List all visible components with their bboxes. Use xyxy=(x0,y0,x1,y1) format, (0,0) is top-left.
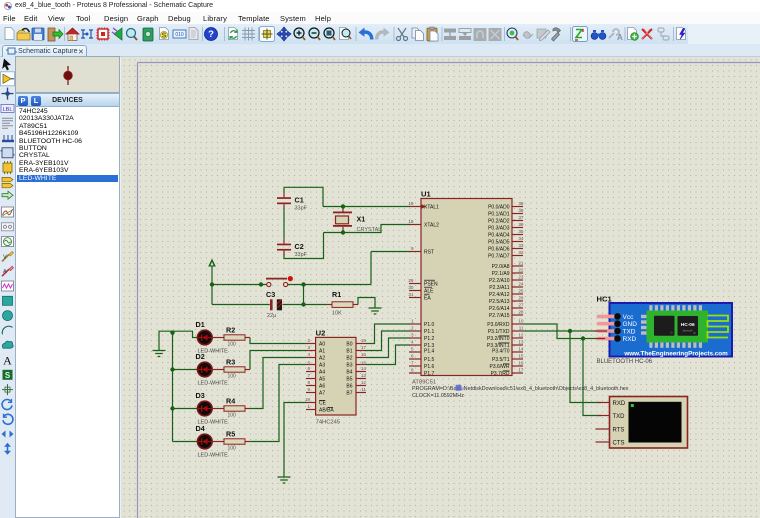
svg-text:P2.6/A14: P2.6/A14 xyxy=(489,306,510,312)
svg-text:13: 13 xyxy=(361,373,367,378)
svg-text:10K: 10K xyxy=(332,311,342,317)
svg-text:R5: R5 xyxy=(226,430,235,439)
svg-text:ALE: ALE xyxy=(424,288,434,294)
svg-text:www.TheEngineeringProjects.com: www.TheEngineeringProjects.com xyxy=(623,351,728,358)
svg-text:P1.4: P1.4 xyxy=(424,349,435,355)
svg-text:P3.7/RD: P3.7/RD xyxy=(491,371,510,377)
svg-text:33pF: 33pF xyxy=(295,252,308,258)
svg-text:A5: A5 xyxy=(319,376,325,382)
svg-text:P1.1: P1.1 xyxy=(424,329,435,335)
svg-text:9: 9 xyxy=(411,246,414,251)
svg-text:18: 18 xyxy=(361,338,367,343)
svg-text:CRYSTAL: CRYSTAL xyxy=(357,227,382,233)
svg-text:D3: D3 xyxy=(196,391,205,400)
svg-text:A: A xyxy=(3,269,7,275)
svg-text:R4: R4 xyxy=(226,397,235,406)
svg-text:33pF: 33pF xyxy=(295,206,308,212)
svg-text:28: 28 xyxy=(518,310,524,315)
svg-text:?: ? xyxy=(208,29,214,40)
svg-text:11: 11 xyxy=(361,387,366,392)
svg-text:P1.7: P1.7 xyxy=(424,371,435,377)
svg-text:14: 14 xyxy=(361,366,367,371)
svg-text:3: 3 xyxy=(307,345,310,350)
svg-text:C1: C1 xyxy=(295,196,304,205)
svg-text:21: 21 xyxy=(518,261,524,266)
svg-text:B0: B0 xyxy=(346,341,352,347)
svg-text:D1: D1 xyxy=(196,320,205,329)
svg-text:7: 7 xyxy=(307,373,310,378)
svg-text:P1.6: P1.6 xyxy=(424,364,435,370)
svg-text:4: 4 xyxy=(411,340,414,345)
svg-text:B3: B3 xyxy=(346,362,352,368)
svg-text:D2: D2 xyxy=(196,352,205,361)
svg-text:S: S xyxy=(162,32,167,39)
svg-text:P0.5/AD5: P0.5/AD5 xyxy=(488,239,510,245)
svg-text:P3.4/T0: P3.4/T0 xyxy=(492,349,510,355)
svg-text:P2.7/A15: P2.7/A15 xyxy=(489,313,510,319)
svg-text:A: A xyxy=(3,354,12,368)
svg-text:23: 23 xyxy=(518,275,524,280)
svg-text:36: 36 xyxy=(518,222,524,227)
svg-text:P2.3/A11: P2.3/A11 xyxy=(489,285,509,291)
svg-text:P0.1/AD1: P0.1/AD1 xyxy=(488,211,510,217)
svg-text:P3.2/INT0: P3.2/INT0 xyxy=(487,336,510,342)
svg-text:4: 4 xyxy=(307,352,310,357)
svg-text:TXD: TXD xyxy=(613,414,626,420)
svg-text:A2: A2 xyxy=(319,355,325,361)
svg-text:9: 9 xyxy=(307,387,310,392)
svg-text:A4: A4 xyxy=(319,369,325,375)
svg-text:S: S xyxy=(5,371,11,380)
svg-text:P3.6/WR: P3.6/WR xyxy=(489,364,509,370)
svg-text:LED-WHITE: LED-WHITE xyxy=(198,453,229,459)
svg-text:5: 5 xyxy=(411,347,414,352)
svg-text:D4: D4 xyxy=(196,424,205,433)
svg-text:P0.0/AD0: P0.0/AD0 xyxy=(488,204,510,210)
svg-text:Vcc: Vcc xyxy=(623,314,635,321)
svg-text:XTAL1: XTAL1 xyxy=(424,204,439,210)
svg-text:26: 26 xyxy=(518,296,524,301)
svg-text:6: 6 xyxy=(411,354,414,359)
svg-text:P2.1/A9: P2.1/A9 xyxy=(492,271,510,277)
svg-text:X1: X1 xyxy=(357,215,366,224)
svg-text:30: 30 xyxy=(408,285,414,290)
svg-text:R1: R1 xyxy=(332,290,341,299)
svg-text:33: 33 xyxy=(518,243,524,248)
svg-text:100: 100 xyxy=(228,342,237,348)
svg-text:27: 27 xyxy=(518,303,524,308)
svg-text:29: 29 xyxy=(408,278,414,283)
svg-text:P3.0/RXD: P3.0/RXD xyxy=(487,322,510,328)
svg-text:U1: U1 xyxy=(421,190,431,199)
svg-text:PROGRAM=D:\BaiduNetdiskDownloa: PROGRAM=D:\BaiduNetdiskDownload\c51\ex8_… xyxy=(412,386,629,392)
svg-text:RST: RST xyxy=(424,249,434,255)
svg-text:8: 8 xyxy=(307,380,310,385)
svg-text:22µ: 22µ xyxy=(267,313,277,319)
svg-text:P0.3/AD3: P0.3/AD3 xyxy=(488,225,510,231)
svg-text:P1.5: P1.5 xyxy=(424,357,435,363)
svg-text:100: 100 xyxy=(228,446,237,452)
svg-text:19: 19 xyxy=(305,397,311,402)
svg-text:19: 19 xyxy=(408,201,414,206)
svg-text:5: 5 xyxy=(307,361,310,366)
svg-text:C3: C3 xyxy=(266,290,275,299)
svg-text:RXD: RXD xyxy=(613,401,626,407)
svg-text:17: 17 xyxy=(361,345,367,350)
svg-text:RTS: RTS xyxy=(613,428,625,434)
svg-text:74HC245: 74HC245 xyxy=(316,420,341,426)
svg-text:GND: GND xyxy=(623,321,638,328)
svg-text:P3.5/T1: P3.5/T1 xyxy=(492,357,510,363)
svg-text:100: 100 xyxy=(228,413,237,419)
svg-text:C2: C2 xyxy=(295,242,304,251)
svg-text:38: 38 xyxy=(518,208,524,213)
svg-text:A6: A6 xyxy=(319,383,325,389)
svg-text:AB/BA: AB/BA xyxy=(319,407,334,413)
svg-text:XTAL2: XTAL2 xyxy=(424,222,439,228)
svg-text:HC-06: HC-06 xyxy=(681,322,695,328)
svg-text:P2.4/A12: P2.4/A12 xyxy=(489,292,510,298)
svg-text:3: 3 xyxy=(411,333,414,338)
svg-text:34: 34 xyxy=(518,236,524,241)
svg-text:16: 16 xyxy=(518,361,524,366)
svg-text:CLOCK=11.0592MHz: CLOCK=11.0592MHz xyxy=(412,393,464,399)
svg-text:B4: B4 xyxy=(346,369,352,375)
svg-text:PSEN: PSEN xyxy=(424,281,438,287)
svg-text:P2.2/A10: P2.2/A10 xyxy=(489,278,510,284)
svg-text:P2.0/A8: P2.0/A8 xyxy=(492,264,510,270)
svg-text:P0.2/AD2: P0.2/AD2 xyxy=(488,218,510,224)
svg-text:EA: EA xyxy=(424,295,431,301)
svg-text:P1.2: P1.2 xyxy=(424,336,435,342)
svg-text:A7: A7 xyxy=(319,390,325,396)
svg-text:1: 1 xyxy=(411,319,414,324)
svg-text:31: 31 xyxy=(408,292,414,297)
svg-text:BLUETOOTH HC-06: BLUETOOTH HC-06 xyxy=(597,359,653,365)
svg-text:P2.5/A13: P2.5/A13 xyxy=(489,299,510,305)
svg-text:22: 22 xyxy=(518,268,524,273)
svg-text:B5: B5 xyxy=(346,376,352,382)
svg-text:17: 17 xyxy=(518,368,524,373)
svg-text:010: 010 xyxy=(175,32,184,38)
svg-text:8: 8 xyxy=(411,368,414,373)
svg-text:A1: A1 xyxy=(319,348,325,354)
svg-text:R2: R2 xyxy=(226,326,235,335)
svg-text:R3: R3 xyxy=(226,358,235,367)
svg-text:25: 25 xyxy=(518,289,524,294)
svg-text:LED-WHITE: LED-WHITE xyxy=(198,381,229,387)
svg-text:A0: A0 xyxy=(319,341,325,347)
svg-text:U2: U2 xyxy=(316,328,326,337)
svg-text:CTS: CTS xyxy=(613,441,625,447)
svg-text:14: 14 xyxy=(518,347,524,352)
svg-text:7: 7 xyxy=(411,361,414,366)
svg-text:100: 100 xyxy=(228,374,237,380)
svg-text:35: 35 xyxy=(518,229,524,234)
svg-text:B6: B6 xyxy=(346,383,352,389)
svg-text:15: 15 xyxy=(361,361,367,366)
svg-text:RXD: RXD xyxy=(623,336,637,343)
svg-text:11: 11 xyxy=(519,326,524,331)
svg-text:18: 18 xyxy=(408,219,414,224)
svg-text:bluetooth: bluetooth xyxy=(683,330,694,333)
svg-text:P0.7/AD7: P0.7/AD7 xyxy=(488,253,510,259)
svg-text:A: A xyxy=(617,33,623,42)
svg-text:6: 6 xyxy=(307,366,310,371)
svg-text:LBL: LBL xyxy=(3,107,13,113)
svg-text:P0.6/AD6: P0.6/AD6 xyxy=(488,246,510,252)
svg-text:1: 1 xyxy=(307,404,310,409)
svg-text:CE: CE xyxy=(319,400,327,406)
svg-text:P3.1/TXD: P3.1/TXD xyxy=(488,329,510,335)
svg-text:13: 13 xyxy=(518,340,524,345)
svg-text:16: 16 xyxy=(361,352,367,357)
svg-text:12: 12 xyxy=(518,333,524,338)
svg-text:AT89C51: AT89C51 xyxy=(412,380,436,386)
svg-text:12: 12 xyxy=(361,380,367,385)
svg-text:39: 39 xyxy=(518,201,524,206)
svg-text:24: 24 xyxy=(518,282,524,287)
svg-text:P1.0: P1.0 xyxy=(424,322,435,328)
svg-text:37: 37 xyxy=(518,215,524,220)
svg-text:B2: B2 xyxy=(346,355,352,361)
svg-text:B7: B7 xyxy=(346,390,352,396)
svg-text:2: 2 xyxy=(307,338,310,343)
svg-text:V: V xyxy=(3,254,7,260)
svg-text:2: 2 xyxy=(411,326,414,331)
svg-text:P0.4/AD4: P0.4/AD4 xyxy=(488,232,510,238)
svg-text:TXD: TXD xyxy=(623,328,636,335)
svg-text:32: 32 xyxy=(518,250,524,255)
svg-text:10: 10 xyxy=(518,319,524,324)
svg-text:15: 15 xyxy=(518,354,524,359)
svg-text:B1: B1 xyxy=(346,348,352,354)
svg-text:A3: A3 xyxy=(319,362,325,368)
